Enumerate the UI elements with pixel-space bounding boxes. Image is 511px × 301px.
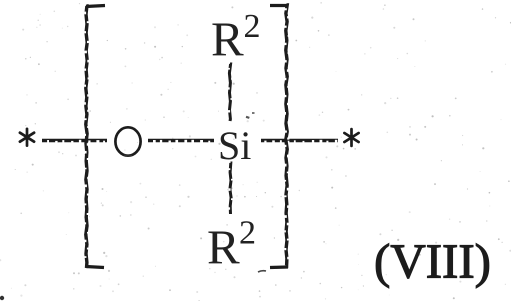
svg-text:(VIII): (VIII) bbox=[374, 234, 491, 289]
svg-text:R: R bbox=[211, 12, 244, 67]
svg-text:R: R bbox=[207, 220, 240, 275]
svg-text:2: 2 bbox=[239, 215, 256, 252]
svg-text:2: 2 bbox=[244, 8, 261, 45]
svg-text:Si: Si bbox=[218, 123, 251, 168]
